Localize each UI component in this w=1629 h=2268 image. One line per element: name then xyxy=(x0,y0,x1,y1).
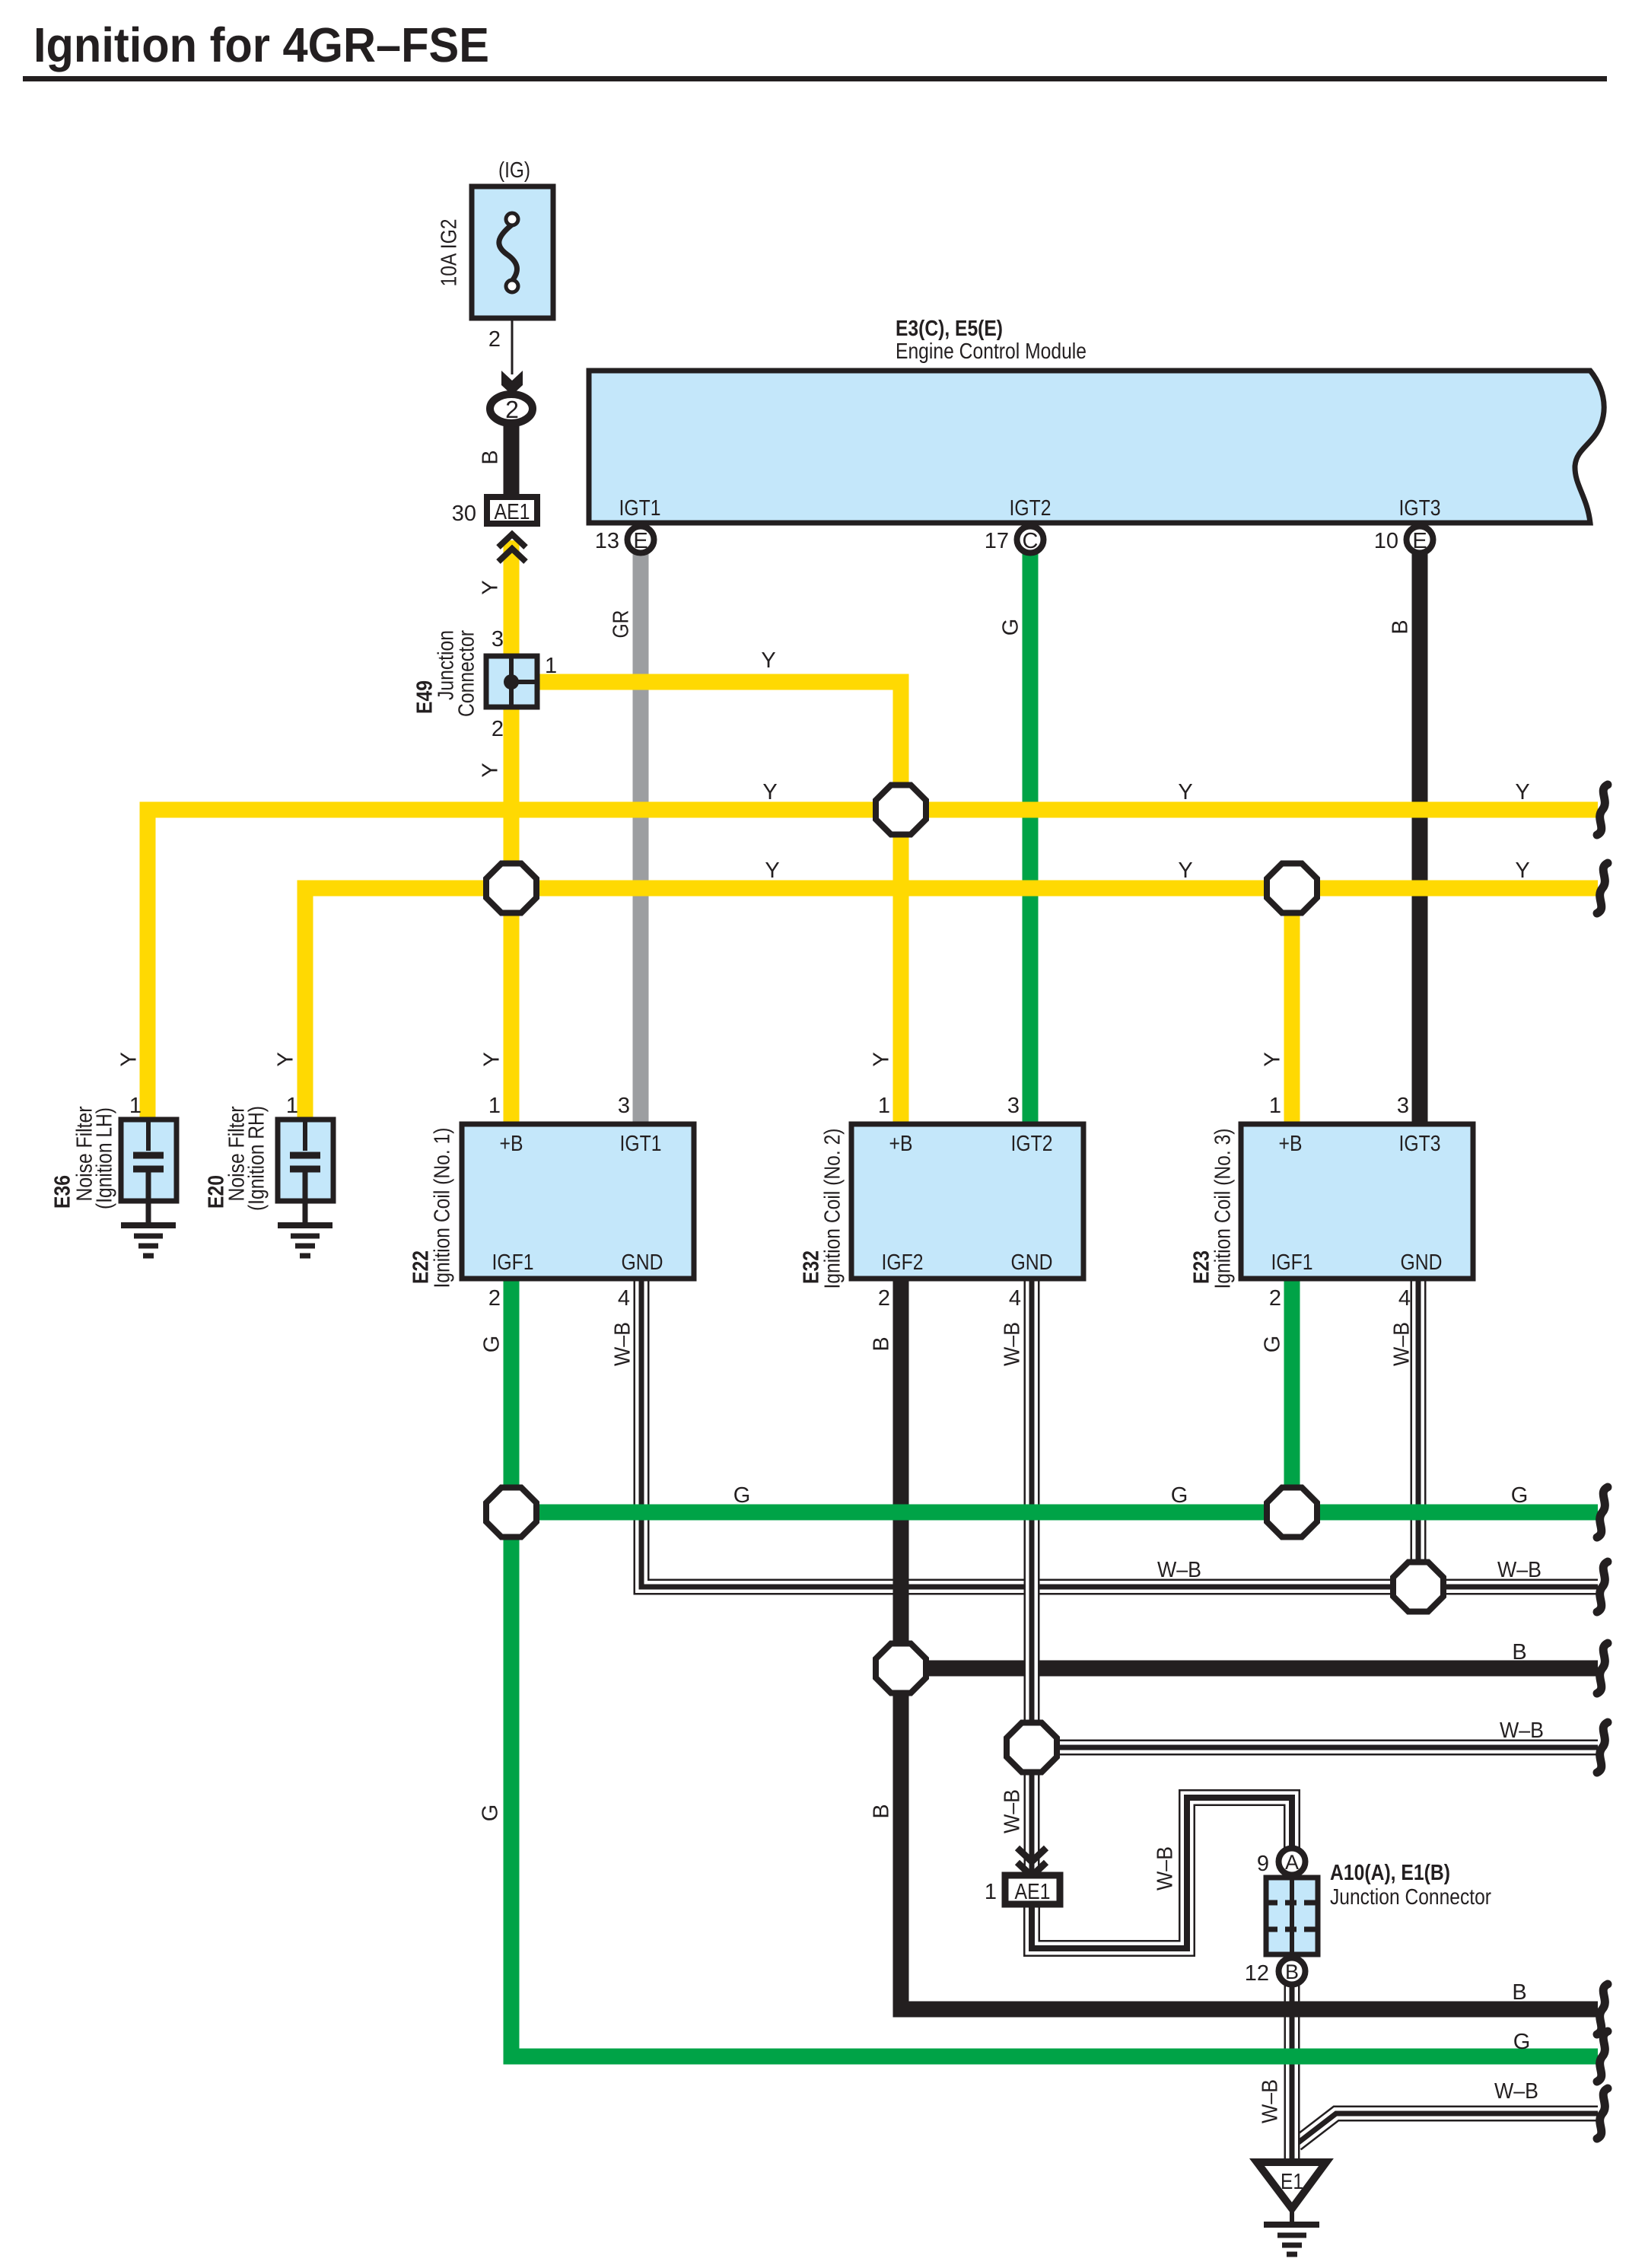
svg-text:Y: Y xyxy=(480,1052,504,1066)
svg-text:A: A xyxy=(1285,1851,1299,1874)
wire W-B from coil1 GND pin 4 with corner to right bus xyxy=(641,1279,1598,1587)
svg-text:Junction Connector: Junction Connector xyxy=(1330,1885,1491,1910)
svg-text:+B: +B xyxy=(500,1132,523,1156)
junction connector E49 xyxy=(486,655,539,709)
wire break squiggle at end of W-B bus 2 xyxy=(1597,1722,1608,1773)
wire B from ECM IGT3 pin 10 to coil3 IGT3 xyxy=(1412,551,1428,1123)
junction connector pin 12 B xyxy=(1279,1958,1306,1985)
svg-text:1: 1 xyxy=(878,1094,890,1118)
svg-text:+B: +B xyxy=(1279,1132,1303,1156)
wire G from coil1 IGF1 pin 2 down through octagon, corner to bottom green bus xyxy=(511,1279,1598,2056)
svg-text:W–B: W–B xyxy=(611,1322,635,1366)
svg-text:E3(C), E5(E): E3(C), E5(E) xyxy=(896,317,1003,341)
svg-text:Ignition for 4GR–FSE: Ignition for 4GR–FSE xyxy=(33,18,489,72)
svg-text:IGF1: IGF1 xyxy=(492,1250,534,1275)
svg-text:Y: Y xyxy=(870,1052,894,1066)
svg-text:Y: Y xyxy=(762,780,777,804)
octagon junction on Y row2 left xyxy=(486,864,536,913)
svg-text:3: 3 xyxy=(1007,1094,1020,1118)
svg-text:Ignition Coil (No. 1): Ignition Coil (No. 1) xyxy=(431,1128,455,1288)
noise filter E20 box with capacitor xyxy=(278,1120,333,1225)
svg-text:10: 10 xyxy=(1374,529,1398,553)
svg-text:B: B xyxy=(870,1804,894,1818)
wire G bus from octagon right xyxy=(511,1505,1598,1521)
wire G from coil3 IGF1 pin 2 down to octagon on green bus xyxy=(1284,1279,1300,1512)
wire Y main vertical from AE1 arrow through E49 to coil1 +B xyxy=(504,540,520,1123)
octagon junction on B bus xyxy=(876,1644,926,1693)
svg-text:Y: Y xyxy=(1515,858,1529,883)
svg-text:E: E xyxy=(1412,529,1427,553)
wire thin from fuse to arrow xyxy=(511,318,514,374)
octagon junction on Y row2 right xyxy=(1267,864,1317,913)
svg-text:E: E xyxy=(633,529,647,553)
wire break squiggle at end of Y row1 bus xyxy=(1597,785,1608,835)
svg-text:G: G xyxy=(999,619,1023,636)
svg-text:3: 3 xyxy=(1397,1094,1409,1118)
svg-text:13: 13 xyxy=(595,529,619,553)
svg-text:GND: GND xyxy=(1401,1250,1443,1275)
wire break squiggle at end of W-B bus xyxy=(1597,1562,1608,1612)
wire B from coil2 IGF2 pin 2 down through octagon, corner to bottom bus xyxy=(901,1279,1598,2009)
wire B thick from circle 2 to AE1 connector xyxy=(504,419,520,499)
svg-text:W–B: W–B xyxy=(1153,1846,1178,1891)
svg-text:IGT3: IGT3 xyxy=(1399,1132,1441,1156)
svg-text:Y: Y xyxy=(1261,1052,1285,1066)
svg-text:4: 4 xyxy=(1009,1286,1021,1311)
svg-text:IGF1: IGF1 xyxy=(1271,1250,1313,1275)
wire W-B bus from octagon right (middle) xyxy=(1032,1740,1598,1756)
svg-text:1: 1 xyxy=(985,1880,997,1904)
wire W-B from coil2 GND pin 4 down through octagon to AE1 xyxy=(1024,1279,1040,1875)
svg-text:IGT3: IGT3 xyxy=(1399,496,1441,521)
svg-text:4: 4 xyxy=(618,1286,630,1311)
wire W-B from junction connector pin B down to E1 ground xyxy=(1284,1979,1300,2161)
svg-text:B: B xyxy=(870,1336,894,1351)
ground below E20 xyxy=(278,1225,332,1256)
arrow solid double chevron down (fuse to connector 2) xyxy=(501,371,523,389)
svg-text:B: B xyxy=(1512,1980,1526,2005)
wire Y from row2 octagon down to coil3 +B xyxy=(1284,888,1300,1123)
svg-text:Y: Y xyxy=(1178,858,1192,883)
ignition coil E22 box xyxy=(462,1124,694,1279)
noise filter E36 box with capacitor xyxy=(121,1120,177,1225)
svg-text:30: 30 xyxy=(452,502,476,526)
arrow outline double chevron down (above bottom AE1) xyxy=(1017,1848,1046,1862)
connector circle 2 xyxy=(490,394,533,423)
ECM box E3(C),E5(E) xyxy=(589,371,1604,523)
svg-text:Connector: Connector xyxy=(455,630,479,717)
octagon junction on W-B bus xyxy=(1393,1562,1443,1612)
octagon junction on W-B bus 2 xyxy=(1007,1723,1057,1773)
svg-text:(Ignition LH): (Ignition LH) xyxy=(93,1107,117,1209)
WIRES-LAYER xyxy=(148,318,1598,2161)
svg-text:B: B xyxy=(479,450,503,464)
wire Y row1 from left corner down to E36, right to break xyxy=(148,810,1598,1123)
wire Y from E49 pin1 right then down to coil2 +B xyxy=(539,682,901,1123)
ground below E36 xyxy=(121,1225,176,1256)
svg-text:2: 2 xyxy=(1269,1286,1281,1311)
svg-text:G: G xyxy=(1511,1483,1529,1508)
octagon junction on Y row1 xyxy=(876,785,926,835)
svg-text:9: 9 xyxy=(1257,1852,1269,1876)
ECM pin 13 E xyxy=(628,527,654,553)
wire break squiggle at end of G bottom bus xyxy=(1597,2031,1608,2082)
wire B bus from octagon right xyxy=(901,1661,1598,1677)
svg-text:2: 2 xyxy=(492,717,504,741)
wire break squiggle at end of G bus xyxy=(1597,1487,1608,1537)
svg-text:IGT1: IGT1 xyxy=(620,1132,662,1156)
svg-text:2: 2 xyxy=(878,1286,890,1311)
svg-text:G: G xyxy=(479,1805,503,1822)
svg-text:IGT2: IGT2 xyxy=(1010,496,1052,521)
svg-text:1: 1 xyxy=(286,1094,298,1118)
svg-text:Y: Y xyxy=(1178,780,1192,804)
svg-text:Ignition Coil (No. 2): Ignition Coil (No. 2) xyxy=(821,1129,845,1289)
junction connector pin 9 A xyxy=(1279,1849,1306,1875)
svg-text:B: B xyxy=(1285,1961,1299,1983)
svg-text:G: G xyxy=(1171,1483,1188,1508)
svg-text:W–B: W–B xyxy=(1390,1322,1414,1366)
svg-text:B: B xyxy=(1389,620,1413,634)
svg-text:2: 2 xyxy=(488,327,501,352)
svg-text:B: B xyxy=(1512,1640,1526,1664)
wire W-B from coil3 GND pin 4 down to octagon on W-B bus xyxy=(1411,1279,1427,1587)
svg-text:3: 3 xyxy=(492,627,504,651)
octagon junction on G bus left xyxy=(486,1488,536,1537)
svg-text:W–B: W–B xyxy=(1497,1558,1542,1582)
svg-text:Engine Control Module: Engine Control Module xyxy=(896,339,1087,364)
wire break squiggle at end of B bus xyxy=(1597,1643,1608,1693)
wire W-B thin zigzag from AE1 to junction connector pin A xyxy=(1032,1798,1292,1948)
svg-text:GND: GND xyxy=(1011,1250,1053,1275)
svg-text:E1: E1 xyxy=(1281,2170,1303,2194)
svg-text:Y: Y xyxy=(274,1052,298,1066)
svg-text:Ignition Coil (No. 3): Ignition Coil (No. 3) xyxy=(1211,1129,1236,1289)
connector AE1 (bottom, pin 1) xyxy=(1005,1875,1060,1904)
wire Y row2 from left corner down to E20, right to break xyxy=(305,888,1598,1123)
svg-text:E36: E36 xyxy=(51,1175,75,1209)
svg-text:G: G xyxy=(1261,1336,1285,1353)
ECM pin 17 C xyxy=(1017,527,1044,553)
svg-text:2: 2 xyxy=(505,396,519,423)
svg-text:G: G xyxy=(480,1336,504,1353)
ECM pin 10 E xyxy=(1407,527,1433,553)
svg-text:AE1: AE1 xyxy=(1015,1880,1051,1904)
svg-text:4: 4 xyxy=(1398,1286,1411,1311)
svg-text:GND: GND xyxy=(622,1250,663,1275)
ground E1 triangle xyxy=(1257,2162,1326,2254)
svg-text:(IG): (IG) xyxy=(498,158,530,183)
svg-text:C: C xyxy=(1023,529,1039,553)
svg-text:W–B: W–B xyxy=(1500,1719,1544,1743)
svg-text:1: 1 xyxy=(545,654,557,678)
fuse 10A IG2 box xyxy=(472,186,553,318)
svg-text:W–B: W–B xyxy=(1494,2079,1538,2104)
wire break squiggle at end of W-B bottom bus xyxy=(1597,2088,1608,2139)
svg-text:12: 12 xyxy=(1245,1961,1269,1986)
wire GR from ECM IGT1 pin 13 to coil1 IGT1 xyxy=(633,551,649,1123)
wire break squiggle at end of Y row2 bus xyxy=(1597,863,1608,913)
fuse element xyxy=(499,225,517,281)
svg-text:+B: +B xyxy=(889,1132,913,1156)
svg-text:IGF2: IGF2 xyxy=(882,1250,924,1275)
svg-text:W–B: W–B xyxy=(1001,1322,1025,1366)
svg-text:Y: Y xyxy=(765,858,779,883)
wire G from ECM IGT2 pin 17 to coil2 IGT2 xyxy=(1023,551,1039,1123)
svg-text:1: 1 xyxy=(1269,1094,1281,1118)
svg-text:3: 3 xyxy=(618,1094,630,1118)
svg-text:Y: Y xyxy=(761,648,775,673)
svg-text:AE1: AE1 xyxy=(495,500,530,524)
svg-text:2: 2 xyxy=(488,1286,501,1311)
svg-text:17: 17 xyxy=(985,529,1009,553)
svg-text:W–B: W–B xyxy=(1258,2079,1283,2123)
svg-text:Y: Y xyxy=(1515,780,1529,804)
svg-text:Y: Y xyxy=(117,1052,142,1066)
svg-text:(Ignition RH): (Ignition RH) xyxy=(245,1106,269,1211)
svg-text:W–B: W–B xyxy=(1001,1789,1025,1833)
svg-text:1: 1 xyxy=(488,1094,501,1118)
svg-text:IGT2: IGT2 xyxy=(1011,1132,1053,1156)
svg-text:A10(A), E1(B): A10(A), E1(B) xyxy=(1330,1861,1450,1885)
arrow outline double chevron up (below AE1) xyxy=(498,534,526,547)
svg-text:GR: GR xyxy=(609,610,634,639)
svg-text:G: G xyxy=(733,1483,751,1508)
svg-text:W–B: W–B xyxy=(1157,1558,1201,1582)
wire break squiggle at end of B bottom bus xyxy=(1597,1984,1608,2034)
ignition coil E23 box xyxy=(1241,1124,1473,1279)
svg-text:10A IG2: 10A IG2 xyxy=(437,219,462,287)
svg-text:IGT1: IGT1 xyxy=(619,496,661,521)
wire W-B bottom bus with diagonal joining vertical xyxy=(1297,2114,1598,2144)
svg-text:Y: Y xyxy=(479,580,503,594)
svg-text:G: G xyxy=(1513,2030,1531,2054)
octagon junction on G bus right xyxy=(1267,1488,1317,1537)
junction connector A10(A),E1(B) xyxy=(1266,1876,1318,1956)
svg-text:Y: Y xyxy=(479,763,503,777)
connector AE1 (top, pin 30) xyxy=(487,497,537,524)
ignition coil E32 box xyxy=(851,1124,1083,1279)
svg-text:1: 1 xyxy=(129,1094,142,1118)
